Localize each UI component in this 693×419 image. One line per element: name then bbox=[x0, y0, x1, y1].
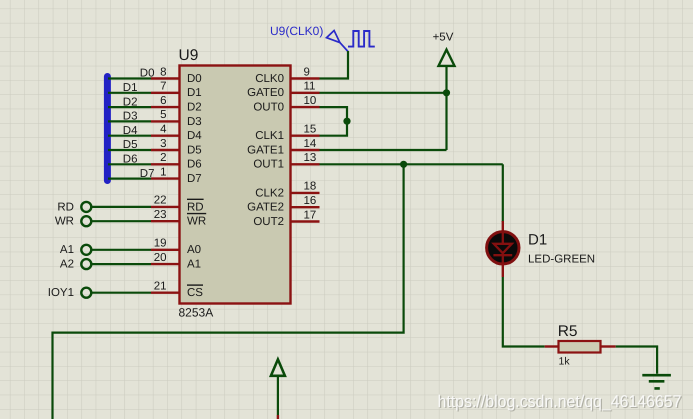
svg-text:D3: D3 bbox=[187, 116, 202, 128]
pin 2 (D6) stub bbox=[151, 163, 180, 165]
svg-text:D7: D7 bbox=[187, 173, 202, 185]
pin 1 (D7) stub bbox=[151, 177, 180, 179]
svg-text:+5V: +5V bbox=[433, 32, 454, 44]
wire OUT1 pin13 bbox=[320, 163, 503, 165]
pin 7 (D1) stub bbox=[151, 92, 180, 94]
pin 13 (OUT1) stub bbox=[291, 163, 320, 165]
svg-text:A1: A1 bbox=[187, 259, 201, 271]
svg-text:D5: D5 bbox=[123, 139, 138, 151]
svg-text:CLK0: CLK0 bbox=[255, 73, 284, 85]
wire WR to chip bbox=[92, 220, 151, 222]
svg-text:OUT2: OUT2 bbox=[253, 216, 284, 228]
pin 4 (D4) stub bbox=[151, 134, 180, 136]
wire A1 to chip bbox=[92, 249, 151, 251]
resistor R5 right lead bbox=[601, 345, 616, 347]
svg-text:GATE0: GATE0 bbox=[247, 87, 284, 99]
svg-text:RD: RD bbox=[187, 201, 204, 213]
junction dot OUT1 branch bbox=[400, 161, 407, 168]
pin 23 (WR) stub bbox=[151, 220, 180, 222]
svg-text:2: 2 bbox=[160, 152, 166, 164]
svg-text:D3: D3 bbox=[123, 111, 138, 123]
svg-text:23: 23 bbox=[154, 209, 167, 221]
svg-text:15: 15 bbox=[304, 124, 317, 136]
svg-text:18: 18 bbox=[304, 181, 317, 193]
pin 9 (CLK0) stub bbox=[291, 77, 320, 79]
terminal A1 bbox=[81, 245, 91, 255]
pin 18 (CLK2) stub bbox=[291, 192, 320, 194]
wire bus to pin 6 (D2) bbox=[108, 106, 151, 108]
pin 8 (D0) stub bbox=[151, 77, 180, 79]
LED D1 cathode lead bbox=[502, 264, 504, 277]
wire bus to pin 5 (D3) bbox=[108, 120, 151, 122]
svg-text:D2: D2 bbox=[123, 96, 138, 108]
svg-text:14: 14 bbox=[304, 138, 317, 150]
svg-text:1: 1 bbox=[160, 166, 166, 178]
wire RD to chip bbox=[92, 206, 151, 208]
wire CLK0 pin9 bbox=[320, 51, 349, 79]
terminal IOY1 bbox=[81, 288, 91, 298]
data bus D0-D7 bbox=[104, 77, 111, 181]
resistor R5 left lead bbox=[545, 345, 559, 347]
svg-text:D6: D6 bbox=[123, 154, 138, 166]
wire GATE1 pin14 bbox=[320, 149, 447, 151]
svg-text:D4: D4 bbox=[123, 125, 138, 137]
pin 16 (GATE2) stub bbox=[291, 206, 320, 208]
svg-text:D1: D1 bbox=[187, 87, 202, 99]
svg-text:21: 21 bbox=[154, 281, 167, 293]
svg-text:7: 7 bbox=[160, 81, 166, 93]
svg-text:OUT1: OUT1 bbox=[253, 159, 284, 171]
svg-text:A1: A1 bbox=[60, 244, 74, 256]
svg-text:10: 10 bbox=[304, 95, 317, 107]
svg-text:17: 17 bbox=[304, 209, 317, 221]
resistor R5 body bbox=[559, 341, 601, 353]
svg-text:D4: D4 bbox=[187, 130, 202, 142]
LED D1 body bbox=[487, 232, 519, 264]
svg-text:A0: A0 bbox=[187, 244, 201, 256]
svg-text:CS: CS bbox=[187, 287, 203, 299]
svg-text:19: 19 bbox=[154, 238, 167, 250]
svg-text:WR: WR bbox=[187, 216, 206, 228]
svg-text:A2: A2 bbox=[60, 259, 74, 271]
wire bus to pin 1 (D7) bbox=[108, 178, 151, 180]
svg-text:9: 9 bbox=[304, 66, 310, 78]
svg-text:D1: D1 bbox=[528, 232, 547, 249]
pin 19 (A0) stub bbox=[151, 249, 180, 251]
pin 17 (OUT2) stub bbox=[291, 220, 320, 222]
svg-text:CLK1: CLK1 bbox=[255, 130, 284, 142]
svg-text:RD: RD bbox=[57, 201, 74, 213]
svg-text:5: 5 bbox=[160, 109, 166, 121]
svg-text:CLK2: CLK2 bbox=[255, 187, 284, 199]
wire LED cathode to R5 bbox=[503, 277, 545, 347]
wire bus to pin 7 (D1) bbox=[108, 92, 151, 94]
wire A2 to chip bbox=[92, 263, 151, 265]
pin 3 (D5) stub bbox=[151, 149, 180, 151]
svg-text:https://blog.csdn.net/qq_46146: https://blog.csdn.net/qq_46146657 bbox=[438, 392, 682, 411]
wire bus to pin 8 (D0) bbox=[108, 77, 151, 79]
pin 20 (A1) stub bbox=[151, 263, 180, 265]
svg-text:1k: 1k bbox=[559, 356, 571, 368]
wire OUT0 pin10 to CLK1 pin15 bbox=[320, 107, 348, 136]
LED D1 anode lead bbox=[502, 221, 504, 232]
svg-text:D1: D1 bbox=[123, 82, 138, 94]
svg-text:D2: D2 bbox=[187, 102, 202, 114]
wire +5V rail bbox=[445, 66, 447, 150]
svg-text:U9: U9 bbox=[179, 47, 199, 64]
wire GATE0 pin11 bbox=[320, 92, 447, 94]
svg-text:8: 8 bbox=[160, 66, 166, 78]
svg-text:IOY1: IOY1 bbox=[48, 287, 74, 299]
IC U9 8253A body bbox=[180, 66, 291, 304]
svg-text:22: 22 bbox=[154, 195, 167, 207]
svg-text:3: 3 bbox=[160, 138, 166, 150]
svg-text:U9(CLK0): U9(CLK0) bbox=[270, 24, 323, 38]
svg-text:6: 6 bbox=[160, 95, 166, 107]
wire R5 to ground bbox=[616, 347, 657, 374]
svg-text:GATE1: GATE1 bbox=[247, 144, 284, 156]
off-page arrow (wire up) bbox=[271, 359, 285, 375]
junction dot OUT0/CLK1 bbox=[343, 118, 350, 125]
svg-text:16: 16 bbox=[304, 195, 317, 207]
pin 5 (D3) stub bbox=[151, 120, 180, 122]
svg-text:D0: D0 bbox=[187, 73, 202, 85]
svg-text:11: 11 bbox=[304, 81, 316, 93]
wire bus to pin 3 (D5) bbox=[108, 149, 151, 151]
pin 10 (OUT0) stub bbox=[291, 106, 320, 108]
junction dot GATE0/+5V bbox=[443, 89, 450, 96]
wire IOY1 to chip bbox=[92, 292, 151, 294]
pin 6 (D2) stub bbox=[151, 106, 180, 108]
voltage probe symbol bbox=[327, 31, 340, 43]
wire bus to pin 4 (D4) bbox=[108, 135, 151, 137]
svg-text:R5: R5 bbox=[558, 323, 578, 340]
pin 11 (GATE0) stub bbox=[291, 92, 320, 94]
terminal WR bbox=[81, 216, 91, 226]
svg-text:8253A: 8253A bbox=[179, 306, 214, 320]
svg-text:LED-GREEN: LED-GREEN bbox=[528, 254, 595, 266]
pin 22 (RD) stub bbox=[151, 206, 180, 208]
svg-text:D6: D6 bbox=[187, 159, 202, 171]
svg-text:4: 4 bbox=[160, 124, 167, 136]
svg-text:GATE2: GATE2 bbox=[247, 202, 284, 214]
svg-text:20: 20 bbox=[154, 252, 167, 264]
wire OUT1 to LED anode bbox=[502, 164, 504, 222]
pin 15 (CLK1) stub bbox=[291, 134, 320, 136]
terminal RD bbox=[81, 202, 91, 212]
wire OUT1 branch down-left bbox=[53, 164, 404, 419]
clock waveform glyph bbox=[348, 31, 375, 47]
svg-text:WR: WR bbox=[55, 216, 74, 228]
ground symbol bbox=[642, 375, 671, 388]
pin 21 (CS) stub bbox=[151, 292, 180, 294]
pin 14 (GATE1) stub bbox=[291, 149, 320, 151]
svg-text:13: 13 bbox=[304, 152, 317, 164]
terminal A2 bbox=[81, 259, 91, 269]
svg-text:OUT0: OUT0 bbox=[253, 102, 284, 114]
svg-text:D5: D5 bbox=[187, 144, 202, 156]
wire bus to pin 2 (D6) bbox=[108, 163, 151, 165]
